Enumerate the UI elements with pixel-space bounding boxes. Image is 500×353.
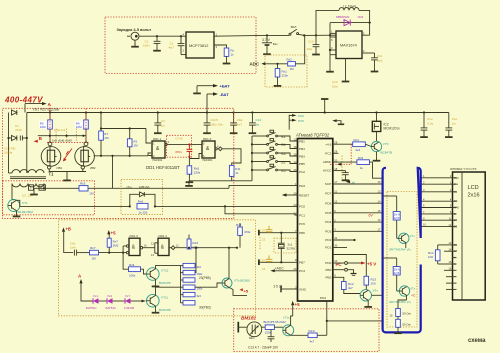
HV block dashed border <box>3 108 234 218</box>
svg-text:SCP: SCP <box>325 182 331 186</box>
svg-text:14: 14 <box>378 199 381 203</box>
LCD pin names <box>454 177 460 266</box>
capacitor C4 <box>154 113 162 134</box>
svg-text:Rх9: Rх9 <box>129 263 135 267</box>
wire to PC0 <box>225 205 298 207</box>
battery GB1 node <box>266 34 268 36</box>
wire R1 leads <box>129 129 131 156</box>
wire LCD Vdd row <box>421 177 453 179</box>
svg-text:Бат: Бат <box>273 42 279 46</box>
gate DD1.4 <box>158 238 169 255</box>
switch S5 <box>251 164 298 171</box>
svg-text:LCD: LCD <box>468 185 479 191</box>
svg-text:22: 22 <box>262 238 266 242</box>
arrow +5 under MCU <box>291 301 294 316</box>
svg-text:PC6: PC6 <box>298 114 304 118</box>
resistor module R1 <box>393 212 400 221</box>
node secondary row <box>43 187 45 189</box>
resistor stack R16e <box>183 292 195 296</box>
transformer block dashed border <box>3 181 95 215</box>
wire tube cathodes <box>49 172 86 181</box>
svg-text:10: 10 <box>144 243 147 247</box>
svg-text:100: 100 <box>371 281 376 285</box>
node rail C17 <box>423 111 425 113</box>
svg-text:S2: S2 <box>281 160 286 164</box>
ground under C11 <box>371 68 379 72</box>
svg-text:IRLML2502: IRLML2502 <box>17 210 33 214</box>
wire MCP PROG to Rx <box>214 45 227 48</box>
diamond gate4 out <box>169 246 175 250</box>
wire PB7 row <box>259 259 298 265</box>
capacitor C14 <box>249 113 257 134</box>
svg-text:4м7: 4м7 <box>169 46 175 50</box>
wire VT10 collector up <box>291 316 293 325</box>
pin numbers MCU right <box>334 140 337 277</box>
resistor R10 <box>186 157 194 182</box>
svg-text:I: I <box>30 186 31 190</box>
wire LCD lower stubs <box>446 277 453 290</box>
arrow flash indicator <box>63 149 72 162</box>
svg-text:10м: 10м <box>307 47 312 51</box>
svg-text:PC3: PC3 <box>299 269 305 273</box>
svg-text:Vх4: Vх4 <box>107 294 112 298</box>
svg-text:R17: R17 <box>90 246 96 250</box>
IC MAX1674 <box>336 31 362 59</box>
svg-text:1с5а 1св: 1с5а 1св <box>54 128 66 132</box>
svg-text:+БАТ: +БАТ <box>220 84 231 89</box>
transistor VT9 <box>222 278 232 288</box>
svg-text:1М: 1М <box>92 256 97 260</box>
node rail -BAT <box>206 111 208 113</box>
svg-text:ADC: ADC <box>250 62 260 67</box>
ground module <box>394 327 402 333</box>
svg-text:3к3: 3к3 <box>197 265 202 269</box>
svg-text:Vх7: Vх7 <box>125 294 130 298</box>
highlight AREF path <box>330 144 351 164</box>
svg-text:сТ1х: сТ1х <box>283 316 290 320</box>
wire R1 to gate pin1 <box>146 129 151 144</box>
pin names MCU left <box>299 139 326 299</box>
diamond test point <box>217 147 222 151</box>
svg-text:БАТ54С: БАТ54С <box>106 306 117 310</box>
svg-text:VD3: VD3 <box>358 15 364 19</box>
svg-text:КД510А: КД510А <box>139 185 149 189</box>
tube pin circle 1 <box>48 142 52 146</box>
svg-text:15: 15 <box>390 314 393 318</box>
wire module R1 to VT5 <box>396 220 398 233</box>
svg-text:PD2: PD2 <box>325 238 331 242</box>
pin numbers blue box left <box>378 180 381 231</box>
svg-text:PC2: PC2 <box>325 151 331 155</box>
arrow AREF highlight <box>337 163 342 166</box>
node PD2 <box>353 239 355 241</box>
svg-text:DD1.3: DD1.3 <box>130 234 139 238</box>
resistor R7 <box>99 131 104 140</box>
highlight segment column b <box>66 129 68 142</box>
svg-text:PB5: PB5 <box>299 162 305 166</box>
wire to inductor <box>316 10 339 35</box>
svg-text:6V: 6V <box>369 214 374 218</box>
wire R12 to VT4 base <box>344 290 361 294</box>
wire MAX bottom <box>345 59 347 78</box>
node snubber left <box>129 205 131 207</box>
resistor stack R16b <box>183 270 195 274</box>
wire VT6 down <box>406 295 408 300</box>
connector PC pin1 <box>333 262 348 265</box>
label R5 <box>39 121 47 129</box>
highlight path anode R6 <box>85 109 87 143</box>
highlight segment column a <box>55 129 57 142</box>
pin names MCU right <box>323 142 332 279</box>
svg-text:DD1.4: DD1.4 <box>159 234 168 238</box>
wire to PC1 <box>225 206 298 215</box>
resistor Rprog <box>224 48 229 56</box>
svg-text:Rx2: Rx2 <box>287 58 293 62</box>
svg-text:C3: C3 <box>22 194 26 198</box>
wire VT9 collector up <box>228 247 230 279</box>
wire ADC line <box>265 63 287 65</box>
svg-text:100n 16в: 100n 16в <box>210 122 223 126</box>
wire LCD V0 row <box>421 191 453 193</box>
wire VT1 drain out <box>17 200 23 206</box>
wire Rx4 to VT3 <box>365 144 371 146</box>
svg-text:R/W: R/W <box>454 207 460 210</box>
wire gate4 out <box>175 247 237 249</box>
svg-text:PD7: PD7 <box>325 191 331 195</box>
node VD2 right <box>26 137 28 139</box>
svg-text:VD1 VD2 КД226Б: VD1 VD2 КД226Б <box>33 108 59 112</box>
svg-text:PB6: PB6 <box>299 231 305 235</box>
svg-text:4к79: 4к79 <box>394 271 400 275</box>
svg-text:R1Э: R1Э <box>309 329 316 333</box>
node boost input <box>315 34 317 36</box>
svg-text:PD5: PD5 <box>325 211 331 215</box>
wire snubber out <box>155 205 225 207</box>
diode snubber <box>130 192 155 206</box>
resistor Rx9 <box>129 267 141 272</box>
svg-text:VT12: VT12 <box>161 268 169 272</box>
wire PB6 row <box>259 230 298 236</box>
ground under VT1 <box>13 211 21 217</box>
wire MAX left pins bus <box>330 23 336 55</box>
svg-text:C11: C11 <box>377 54 383 58</box>
svg-text:23: 23 <box>294 203 297 207</box>
svg-text:IC2: IC2 <box>384 122 389 126</box>
wire +B drop <box>64 232 73 253</box>
switch S2 <box>251 139 298 149</box>
transformer T1 primary <box>12 170 44 173</box>
node rail C4 <box>157 111 159 113</box>
wire rail to IC2 <box>376 113 378 122</box>
svg-text:Rх3: Rх3 <box>80 182 86 186</box>
wire R17 to gate <box>99 252 124 254</box>
capacitor C16 <box>266 255 273 262</box>
wire IC2 to VT3 <box>376 132 378 142</box>
wire AVCC stub <box>333 170 346 172</box>
resistor R17 <box>90 250 99 255</box>
wire LCD D4 row <box>421 219 453 221</box>
resistor mic R <box>265 325 274 330</box>
resistor snubber <box>137 203 148 209</box>
svg-text:DD1.2: DD1.2 <box>203 137 212 141</box>
svg-text:C14: C14 <box>255 118 261 122</box>
wire R6 bottom <box>85 129 87 142</box>
capacitor C5 <box>203 113 211 134</box>
resistor R11 <box>229 165 234 176</box>
wire grid output <box>94 155 148 157</box>
svg-text:АRNF: АRNF <box>323 160 332 164</box>
node PB7 crystal <box>280 261 282 263</box>
switch S4 <box>251 156 298 164</box>
svg-text:1N4148: 1N4148 <box>124 306 135 310</box>
tube HL2 <box>75 146 95 166</box>
ground VT8 <box>152 279 160 286</box>
diode VD4 <box>93 298 107 304</box>
arrow RESET <box>282 193 298 196</box>
resistor R15 <box>308 333 317 338</box>
connector mic left <box>238 322 247 333</box>
node out to R9 <box>195 247 197 249</box>
wire primary right <box>26 171 28 173</box>
ground tick PC <box>351 274 357 276</box>
svg-text:PD6: PD6 <box>325 201 331 205</box>
charger block dashed border <box>105 17 256 74</box>
node C7 top <box>188 143 190 145</box>
microphone MK1 <box>247 322 262 337</box>
wire secondary right <box>43 184 45 189</box>
highlight box C7 <box>167 135 192 157</box>
wire PD4 to module <box>327 320 383 322</box>
svg-text:C4: C4 <box>161 119 165 123</box>
svg-text:PD0: PD0 <box>325 261 331 265</box>
wire between shunts <box>397 317 399 320</box>
node PB6 crystal <box>280 232 282 234</box>
svg-text:схема: схема <box>468 338 486 344</box>
ground under Rprog <box>223 56 231 63</box>
svg-text:MCM1201x: MCM1201x <box>384 127 401 131</box>
svg-text:PC2: PC2 <box>299 170 305 174</box>
svg-text:PD1: PD1 <box>325 246 331 250</box>
highlight box crystal <box>274 238 296 253</box>
capacitor C2hv <box>20 136 27 141</box>
svg-text:PD3: PD3 <box>325 229 331 233</box>
svg-text:1нБ хЕнБ х1И8: 1нБ хЕнБ х1И8 <box>52 139 72 143</box>
svg-text:-БАТ: -БАТ <box>220 92 230 97</box>
wire mic R to VT10 <box>274 326 283 328</box>
resistor Rx1 <box>275 64 280 82</box>
wire VT8 collector <box>156 266 181 269</box>
wire Rx9 left up <box>123 253 128 270</box>
wire GND pin <box>281 286 298 293</box>
transistor VT4 <box>360 290 371 301</box>
svg-text:R1З: R1З <box>192 241 198 245</box>
crystal ZQ1 <box>278 243 285 248</box>
svg-text:Vdd: Vdd <box>454 177 459 180</box>
wire stack to VT9 base <box>195 283 222 287</box>
wire PD7 row <box>333 192 383 194</box>
svg-text:БАТ54С: БАТ54С <box>86 306 97 310</box>
svg-text:Rх8: Rх8 <box>236 223 242 227</box>
svg-text:L1 10мH: L1 10мH <box>343 5 357 9</box>
svg-text:13: 13 <box>378 189 381 193</box>
wire VT4 out <box>372 294 383 296</box>
arrow A bottom <box>79 279 82 283</box>
svg-text:+4.6: +4.6 <box>325 142 331 146</box>
wire bus bottom <box>189 180 252 182</box>
svg-text:PD3: PD3 <box>299 184 305 188</box>
svg-text:2к4: 2к4 <box>356 148 361 152</box>
svg-text:100: 100 <box>428 255 433 259</box>
arrow +B left <box>34 140 38 143</box>
resistor shunt 2 <box>396 319 401 327</box>
svg-text:220к: 220к <box>282 74 289 78</box>
mic amp block dashed border <box>234 309 379 352</box>
svg-text:4700: 4700 <box>15 128 22 132</box>
node rail C14 <box>251 111 253 113</box>
resistor stack R16a <box>183 263 195 267</box>
diode VD1 <box>12 110 17 115</box>
svg-text:Зарядка 4-5 вольт: Зарядка 4-5 вольт <box>117 27 152 32</box>
wire -BAT tap <box>207 94 213 112</box>
svg-text:+C: +C <box>411 294 416 298</box>
resistor R13 <box>364 276 369 285</box>
svg-text:13: 13 <box>151 253 154 257</box>
svg-text:IRF7341PbF (A): IRF7341PbF (A) <box>390 248 411 252</box>
svg-text:PC5: PC5 <box>299 222 305 226</box>
svg-text:VT1: VT1 <box>22 201 28 205</box>
wire R5 bottom <box>49 129 51 142</box>
node rail IC2 <box>375 111 377 113</box>
capacitor C10 <box>313 35 320 50</box>
ground tap on row <box>30 188 38 194</box>
svg-text:C10: C10 <box>308 40 314 44</box>
tube pin circle 2 <box>84 142 88 146</box>
capacitor C13 <box>268 330 275 343</box>
module inner dashed border <box>387 192 417 328</box>
svg-text:VTх: VTх <box>410 234 416 238</box>
label winding I <box>29 185 34 190</box>
svg-text:50 Ом: 50 Ом <box>402 312 410 316</box>
svg-text:30(PB3): 30(PB3) <box>199 306 211 310</box>
resistor R6 <box>84 120 89 129</box>
svg-text:Vх1: Vх1 <box>93 294 98 298</box>
wire PD0 to R13 <box>333 255 367 277</box>
arrow +B lower <box>62 227 65 231</box>
svg-text:10М: 10М <box>40 125 46 129</box>
resistor Rx4 <box>353 142 366 147</box>
svg-text:C13 4.7 - 22мкФ 16V: C13 4.7 - 22мкФ 16V <box>248 345 279 349</box>
wire primary left <box>9 172 13 174</box>
highlight AVCC column <box>341 156 343 180</box>
svg-text:MBR0520: MBR0520 <box>336 15 350 19</box>
svg-text:S3: S3 <box>281 152 286 156</box>
svg-text:MCP73812: MCP73812 <box>189 43 208 48</box>
bottom logic block dashed border <box>59 220 256 316</box>
capacitor AVCC filter <box>342 171 350 181</box>
svg-text:1м: 1м <box>161 124 165 128</box>
svg-text:МК1: МК1 <box>249 336 255 340</box>
wire gate1 pin2 <box>149 155 153 157</box>
wire VT9 emitter <box>229 287 247 295</box>
resistor Rx2 <box>288 62 296 66</box>
svg-text:3к3: 3к3 <box>197 294 202 298</box>
svg-text:PC5: PC5 <box>298 119 304 123</box>
svg-text:3.7 V: 3.7 V <box>262 38 271 42</box>
capacitor C15 <box>266 226 273 233</box>
svg-text:+5: +5 <box>295 302 301 307</box>
svg-text:16: 16 <box>378 218 381 222</box>
capacitor C11 <box>362 53 378 68</box>
diode VD2 <box>9 136 17 141</box>
wire PC to +5V <box>348 262 362 264</box>
highlight crystal column <box>259 237 261 250</box>
resistor R4 <box>79 186 88 191</box>
diode VD6 <box>125 298 142 304</box>
switch S1 <box>252 130 298 141</box>
wire PD4 row <box>333 221 383 223</box>
resistor R9 base <box>195 247 197 273</box>
capacitor C8 <box>74 250 89 256</box>
IC DD2 ATmega8 <box>298 139 333 302</box>
svg-text:С16: С16 <box>260 258 266 262</box>
wire R13 to VT4 <box>365 285 367 290</box>
svg-text:ИВ2: ИВ2 <box>90 166 96 170</box>
wire VT5 down <box>405 243 407 248</box>
switch VK1 <box>267 29 304 35</box>
svg-text:0.1м: 0.1м <box>427 122 433 126</box>
IC2 supervisor MCM1201x <box>372 121 381 131</box>
resistor R5 <box>48 120 53 129</box>
wire R6 top <box>85 113 87 120</box>
wire SCK row <box>333 183 383 185</box>
svg-text:12: 12 <box>151 241 154 245</box>
svg-text:32768: 32768 <box>287 247 296 251</box>
wire gate2 out <box>222 149 241 166</box>
svg-text:+5 V: +5 V <box>367 261 376 266</box>
svg-text:470п: 470п <box>175 150 182 154</box>
resistor stack R16f <box>183 301 195 305</box>
transistor VT1 <box>8 200 20 212</box>
node at C2 <box>180 35 182 37</box>
arrow +5 right of VT9 <box>240 288 243 291</box>
node MAX input <box>329 34 331 36</box>
svg-text:+5: +5 <box>111 230 117 235</box>
LCD box <box>453 172 486 300</box>
wire VT1 gate long <box>22 205 130 207</box>
wire PD2 row <box>333 239 355 241</box>
svg-text:17: 17 <box>334 180 337 184</box>
wire divider drop <box>112 156 114 189</box>
svg-text:24: 24 <box>294 211 297 215</box>
transistor VT10 <box>283 325 294 336</box>
ground tap on rail <box>321 99 328 114</box>
svg-text:AVCC: AVCC <box>323 169 332 173</box>
node grid 1 <box>49 135 51 137</box>
ground MAX bottom <box>342 78 350 82</box>
svg-text:4к79: 4к79 <box>394 216 400 220</box>
transformer core <box>10 177 46 179</box>
svg-text:100n: 100n <box>143 44 150 48</box>
svg-text:VTх: VTх <box>373 289 379 293</box>
capacitor C9 <box>230 113 238 134</box>
wire R7 bottom <box>100 140 102 156</box>
svg-text:1м: 1м <box>255 122 259 126</box>
wire gate drive row <box>34 187 229 189</box>
svg-text:с6.к: с6.к <box>127 185 133 189</box>
wire PC2 stub <box>333 152 339 154</box>
svg-text:PC1: PC1 <box>299 213 305 217</box>
node Rx7 junction <box>108 252 110 254</box>
